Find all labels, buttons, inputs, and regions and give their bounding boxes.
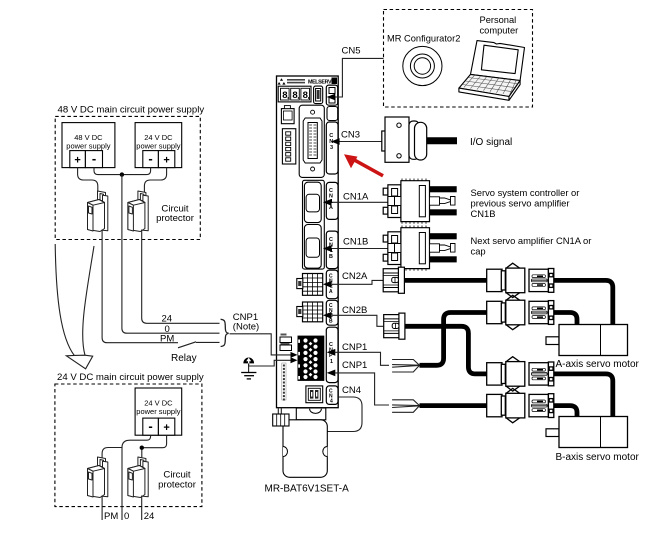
B-axis power connector pair (487, 388, 554, 422)
arrow into CNP1 left lower (291, 357, 298, 363)
CN1B module strip (326, 231, 338, 269)
arrow into CNP1 left upper (291, 352, 298, 358)
CN1A cable connector (383, 179, 457, 224)
CNP1 module strip (326, 327, 338, 382)
CN1B socket on amp (304, 225, 321, 269)
svg-text:24: 24 (144, 511, 155, 522)
A-axis power connector pair (487, 295, 554, 329)
svg-text:1: 1 (330, 359, 333, 365)
CNP1 black connector on amp (298, 336, 325, 381)
arrow into CN2B (323, 312, 332, 319)
wire CNP1 first (335, 352, 390, 365)
svg-text:CN4: CN4 (342, 385, 361, 396)
svg-text:8: 8 (303, 90, 308, 101)
svg-text:-: - (92, 151, 96, 166)
amplifier outline (277, 76, 339, 408)
wire CNP1 second (335, 373, 390, 405)
svg-text:protector: protector (158, 480, 197, 491)
wire bundle to CNP1 (230, 334, 295, 355)
dashed box 24V (55, 384, 202, 507)
junction dot (120, 172, 124, 176)
center bottom panel (303, 180, 325, 269)
24V power supply box (135, 388, 182, 435)
cable pair4 to B motor (554, 406, 577, 417)
svg-text:CN1A: CN1A (343, 192, 369, 203)
CN2A cable connector (383, 267, 404, 293)
right strip module CN5 (326, 85, 337, 105)
wire PM lower (101, 496, 103, 521)
svg-text:power supply: power supply (66, 142, 110, 151)
CN2B block on amp (303, 302, 323, 322)
CN2B thick cable to pair3 (405, 326, 488, 374)
svg-text:B-axis servo motor: B-axis servo motor (556, 452, 640, 463)
CN3 connector on amp (303, 110, 322, 171)
circuit protector 2 (48V box) (128, 191, 148, 232)
svg-text:CN5: CN5 (342, 46, 361, 57)
24V aux power supply box (135, 123, 182, 168)
svg-text:+: + (74, 155, 80, 167)
svg-text:Personal: Personal (480, 15, 517, 25)
arrow into CN1A (323, 199, 332, 206)
junction dot lower (140, 446, 144, 450)
I/O connector plate (382, 117, 427, 162)
svg-text:CN1B: CN1B (343, 237, 368, 248)
48V power supply box (62, 123, 115, 168)
A-axis servo motor (546, 325, 628, 356)
svg-text:A-axis servo motor: A-axis servo motor (556, 359, 640, 370)
cable pair1 to A motor (554, 280, 613, 325)
terminals lower 24V (143, 418, 159, 435)
svg-text:CN1B: CN1B (471, 208, 496, 219)
svg-text:cap: cap (471, 246, 486, 257)
wire 24 (142, 230, 220, 324)
center top panel (299, 105, 324, 177)
svg-text:MR Configurator2: MR Configurator2 (387, 34, 460, 44)
ground symbol (241, 358, 256, 379)
svg-text:(Note): (Note) (233, 322, 259, 333)
cable pair2 to A motor (554, 313, 577, 326)
svg-text:48 V DC main circuit power sup: 48 V DC main circuit power supply (58, 105, 205, 116)
svg-text:CN2A: CN2A (342, 271, 368, 282)
svg-text:B: B (329, 318, 333, 324)
CN2A block on amp (303, 274, 323, 296)
svg-text:A: A (329, 205, 333, 211)
svg-text:Relay: Relay (171, 353, 197, 364)
wire CN2B (332, 315, 383, 326)
wire CN1A (332, 201, 392, 203)
dashed box 48V (55, 116, 200, 239)
svg-text:CN3: CN3 (341, 130, 360, 141)
terminals 24V (143, 151, 159, 168)
wire fan A-power (392, 360, 419, 373)
wire -48 to junction (94, 168, 122, 175)
LED labels 24V / CHARGE (280, 337, 292, 343)
svg-text:+: + (163, 422, 169, 434)
svg-text:0: 0 (124, 511, 129, 522)
A power cable to pair2 (420, 313, 489, 366)
svg-text:8: 8 (292, 90, 297, 101)
cable pair3 to B motor (554, 374, 613, 417)
battery MR-BAT6V1SET-A (273, 408, 328, 477)
left small relay box (281, 109, 294, 124)
svg-text:3: 3 (330, 145, 333, 151)
wire CN5 to PC box (335, 58, 384, 97)
model name vertical text (282, 363, 286, 400)
B-axis encoder connector pair (487, 357, 554, 391)
CN3 module strip (326, 122, 338, 174)
wire PM after relay (196, 341, 220, 343)
CN2A module strip (326, 270, 338, 299)
circuit protector 1 (48V box) (88, 191, 108, 232)
svg-text:I/O signal: I/O signal (470, 137, 512, 148)
wire CN1B (332, 248, 392, 250)
wire CN4 to battery (328, 397, 363, 432)
7-segment display (278, 86, 311, 102)
svg-text:B: B (329, 254, 333, 260)
svg-text:PM: PM (104, 511, 118, 522)
svg-text:8: 8 (282, 90, 287, 101)
svg-text:power supply: power supply (136, 142, 180, 151)
CN1A module strip (326, 182, 338, 219)
svg-text:Next servo amplifier CN1A or: Next servo amplifier CN1A or (471, 235, 592, 246)
laptop icon (459, 41, 525, 101)
terminals 48V (70, 151, 86, 168)
small module below CN5 (327, 107, 338, 121)
relay contact blade (178, 342, 196, 348)
svg-text:power supply: power supply (136, 407, 180, 416)
svg-text:PM: PM (160, 334, 174, 345)
battery wires from amp (277, 408, 279, 415)
CN1A socket on amp (304, 182, 321, 222)
svg-text:A: A (329, 289, 333, 295)
arrow into CN5 (327, 94, 336, 101)
arrow CNP1 second (327, 370, 336, 377)
svg-text:protector: protector (156, 213, 195, 224)
laptop key grid (463, 75, 518, 95)
CN4 module strip (326, 386, 338, 405)
circuit protector 4 (24V box) (128, 457, 148, 498)
wire 24 lower (141, 496, 143, 521)
CN2B cable connector (384, 313, 405, 339)
header logo row (278, 78, 338, 86)
wire -24 to junction (122, 168, 151, 175)
arrow into CN3 (331, 138, 340, 145)
svg-text:previous servo amplifier: previous servo amplifier (471, 198, 570, 209)
CD icon (403, 46, 442, 85)
CN5 USB connector on amp (314, 86, 323, 104)
wire - to protector3 and 0 line (102, 435, 151, 457)
PC dashed box (384, 10, 533, 108)
svg-text:-: - (148, 151, 152, 166)
svg-text:24 V DC main circuit power sup: 24 V DC main circuit power supply (57, 372, 204, 383)
A-axis encoder connector pair (487, 263, 554, 297)
wire 0 (122, 175, 220, 334)
ground wire (249, 360, 294, 366)
B-axis servo motor (546, 417, 628, 448)
wire +48 to protector1 (78, 168, 98, 193)
left DIP switch block (282, 129, 295, 164)
svg-text:MR-BAT6V1SET-A: MR-BAT6V1SET-A (265, 484, 350, 495)
red arrow pointing at CN3 (344, 154, 383, 176)
brace (221, 319, 229, 346)
wire fan B-power (392, 400, 419, 413)
svg-text:Servo system controller or: Servo system controller or (471, 187, 580, 198)
svg-text:4: 4 (330, 399, 333, 405)
CN2B module strip (326, 300, 338, 325)
wire CN3 (338, 141, 385, 143)
I/O cable (427, 137, 458, 144)
svg-text:24: 24 (162, 314, 173, 325)
wire PM (102, 230, 178, 343)
svg-text:+: + (163, 155, 169, 167)
circuit protector 3 (24V box) (88, 457, 108, 498)
svg-text:CNP1: CNP1 (342, 360, 367, 371)
arrow into CN1B (323, 245, 332, 252)
arrow into CN2A (323, 281, 332, 288)
svg-text:CNP1: CNP1 (342, 342, 367, 353)
svg-text:-: - (148, 419, 152, 434)
wire +24 to protector2 (144, 168, 166, 193)
wire CN2A (332, 280, 383, 284)
arrow CNP1 first (327, 349, 336, 356)
CN4 connector on amp (306, 386, 323, 403)
CN2A thick cable (404, 278, 488, 283)
CN1B cable connector (383, 226, 457, 271)
wire + to protector4 (142, 435, 167, 457)
svg-text:CN2B: CN2B (342, 305, 367, 316)
wire 0 lower (121, 448, 123, 521)
B power cable to pair4 (420, 403, 489, 408)
svg-text:computer: computer (480, 26, 519, 36)
